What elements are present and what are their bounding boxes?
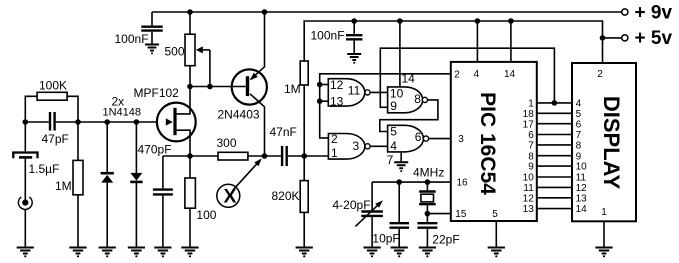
capacitor C6 100nF (right) — [353, 21, 355, 34]
svg-text:11: 11 — [348, 84, 361, 98]
capacitor 10pF — [398, 182, 400, 222]
svg-text:3: 3 — [353, 139, 360, 153]
IC U2 PIC 16C54 — [451, 62, 537, 221]
input connector J1 — [18, 197, 32, 210]
svg-text:2: 2 — [454, 70, 460, 81]
wire U1 pin7 to ground — [400, 152, 402, 162]
svg-text:MPF102: MPF102 — [134, 86, 180, 100]
diode D2 1N4148 — [135, 122, 137, 173]
terminal +9v — [622, 9, 628, 15]
ground (trimmer) — [364, 248, 381, 258]
svg-text:11: 11 — [523, 183, 534, 194]
node 5v/PIC pin14 — [508, 18, 514, 24]
svg-text:8: 8 — [528, 151, 534, 162]
svg-text:8: 8 — [576, 141, 582, 152]
op-amp U1c NAND 2,1->3 — [328, 134, 365, 160]
svg-text:4MHz: 4MHz — [413, 166, 444, 180]
svg-text:8: 8 — [414, 92, 421, 106]
svg-text:11: 11 — [576, 173, 587, 184]
wire bus PIC9-DISP10 — [537, 165, 572, 167]
wire J1 to ground — [24, 210, 26, 248]
node 5v/PIC pin4 — [475, 18, 481, 24]
svg-text:PIC 16C54: PIC 16C54 — [476, 92, 499, 195]
svg-text:1.5µF: 1.5µF — [29, 162, 60, 176]
resistor R5 300 — [218, 152, 248, 160]
wire gate1 out to gate2 pin10 — [370, 91, 388, 93]
wire bus PIC11-DISP12 — [537, 186, 572, 188]
node drain — [187, 84, 193, 90]
svg-text:1: 1 — [528, 99, 534, 110]
wire +5v terminal lead — [603, 37, 622, 39]
wire bus PIC8-DISP9 — [537, 155, 572, 157]
wire bus PIC1-DISP4 — [537, 102, 572, 104]
wire +9v rail — [152, 11, 622, 13]
terminal +5v — [622, 35, 628, 41]
ground (C1) — [145, 45, 159, 55]
node B — [75, 119, 81, 125]
svg-text:12: 12 — [523, 193, 535, 204]
wire source row — [163, 155, 218, 157]
node 10pF tap — [396, 179, 402, 185]
wire U1 pin14 to 5v — [399, 21, 401, 87]
wire C3 to node A — [24, 122, 26, 151]
wire bus PIC17-DISP6 — [537, 123, 572, 125]
svg-text:14: 14 — [402, 72, 416, 86]
wire gate2 pin9 to PIC pin1 net — [380, 48, 554, 107]
svg-text:13: 13 — [523, 204, 535, 215]
ground (10pF) — [391, 248, 408, 258]
capacitor C1 100nF (left) — [151, 12, 153, 25]
node 5v/gate pin14 — [397, 18, 403, 24]
svg-text:47pF: 47pF — [42, 132, 69, 146]
svg-text:3: 3 — [458, 134, 464, 145]
wire bus PIC13-DISP14 — [537, 208, 572, 210]
svg-text:7: 7 — [387, 153, 394, 167]
trimmer capacitor 4-20pF — [371, 182, 373, 210]
capacitor C5 47nF — [265, 155, 282, 157]
ground (R2) — [69, 248, 86, 258]
svg-text:9: 9 — [390, 99, 397, 113]
svg-text:DISPLAY: DISPLAY — [599, 96, 624, 190]
svg-text:5: 5 — [390, 124, 397, 138]
wire +5v rail — [304, 21, 602, 63]
svg-text:15: 15 — [455, 209, 467, 220]
svg-text:4: 4 — [576, 99, 582, 110]
svg-text:1M: 1M — [55, 179, 72, 193]
node 5v/100nF — [351, 18, 357, 24]
svg-text:14: 14 — [504, 69, 516, 80]
ground (J1) — [17, 248, 34, 258]
svg-text:14: 14 — [576, 204, 588, 215]
svg-text:16: 16 — [457, 178, 469, 189]
capacitor C2 47pF — [50, 112, 55, 131]
probe point X — [217, 184, 240, 207]
node PIC pin1 feedback tap — [552, 100, 558, 106]
node A input — [23, 119, 29, 125]
svg-text:6: 6 — [528, 130, 534, 141]
wire gate4 out to PIC pin3 — [429, 138, 451, 140]
wire PIC pin15 row — [427, 213, 450, 215]
svg-text:100nF: 100nF — [311, 29, 345, 43]
svg-text:17: 17 — [523, 119, 535, 130]
svg-text:5: 5 — [492, 209, 498, 220]
ground (22pF) — [419, 248, 436, 258]
svg-text:9: 9 — [528, 162, 534, 173]
transistor Q2 2N4403 — [232, 69, 267, 104]
svg-text:10: 10 — [576, 162, 588, 173]
capacitor 22pF — [426, 214, 428, 222]
node pin12 tap — [317, 82, 323, 88]
capacitor C3 1.5uF — [13, 153, 37, 159]
svg-text:820K: 820K — [272, 189, 300, 203]
node 9v/Q2 emitter — [262, 9, 268, 15]
svg-text:300: 300 — [217, 136, 237, 150]
svg-text:2: 2 — [597, 69, 603, 80]
svg-text:13: 13 — [330, 94, 344, 108]
wire DISP pin1 to ground — [603, 221, 605, 247]
wire gate2 out feedback to gate4 pin5 — [380, 100, 438, 132]
ground (R4) — [181, 248, 198, 258]
capacitor C4 470pF — [162, 156, 164, 188]
node D1 — [104, 119, 110, 125]
svg-text:1M: 1M — [284, 82, 301, 96]
wire bus PIC18-DISP5 — [537, 112, 572, 114]
wire PIC pin4 to 5v — [476, 21, 478, 62]
svg-text:4: 4 — [390, 139, 397, 153]
svg-text:47nF: 47nF — [270, 125, 297, 139]
transistor Q1 MPF102 — [157, 103, 196, 142]
wire main input line — [25, 121, 157, 123]
resistor R6 1M (bias) — [300, 61, 308, 85]
wire PIC pin5 to ground — [495, 221, 497, 248]
svg-text:100: 100 — [196, 208, 216, 222]
svg-text:12: 12 — [576, 183, 588, 194]
ground (D2) — [128, 248, 145, 258]
svg-text:1: 1 — [331, 146, 338, 160]
wire bus PIC10-DISP11 — [537, 176, 572, 178]
resistor R7 820K — [303, 156, 305, 181]
resistor R4 100 — [189, 156, 191, 178]
svg-text:7: 7 — [528, 141, 534, 152]
op-amp U1d NAND 5,4->6 — [388, 125, 424, 152]
wire PIC pin16 row — [372, 181, 451, 183]
svg-text:4: 4 — [474, 69, 480, 80]
node wiper — [207, 84, 213, 90]
potentiometer R3 500 — [189, 12, 191, 34]
wire bus PIC6-DISP7 — [537, 134, 572, 136]
node 5v terminal tap — [600, 35, 606, 41]
ground (D1) — [99, 248, 116, 258]
wire drain node row — [190, 86, 246, 88]
svg-text:10: 10 — [523, 173, 535, 184]
svg-text:470pF: 470pF — [138, 143, 172, 157]
svg-text:2: 2 — [331, 132, 338, 146]
resistor R1 100K — [25, 96, 37, 122]
wire PIC pin14 to 5v — [510, 21, 512, 62]
resistor R2 1M — [77, 122, 79, 160]
wire gate1 pin12 stub — [320, 84, 329, 86]
ground (C6) — [347, 54, 361, 64]
wire PIC pin2 net — [320, 74, 451, 138]
node collector — [262, 153, 268, 159]
diode D1 1N4148 — [106, 122, 108, 172]
ground (R7) — [296, 248, 313, 258]
svg-text:13: 13 — [576, 193, 588, 204]
wire gate3 out to gate4 pin4 — [370, 145, 387, 147]
svg-text:7: 7 — [576, 130, 582, 141]
IC U3 DISPLAY — [572, 63, 636, 221]
wire bus PIC7-DISP8 — [537, 144, 572, 146]
op-amp U1b NAND 10,9->8 — [388, 87, 423, 113]
crystal X1 4MHz — [426, 182, 428, 190]
svg-text:22pF: 22pF — [432, 233, 459, 247]
wire bus PIC12-DISP13 — [537, 197, 572, 199]
node crystal bottom — [425, 211, 431, 217]
svg-text:1: 1 — [601, 207, 607, 218]
svg-text:18: 18 — [523, 109, 535, 120]
wire J1 to C3 — [24, 158, 26, 202]
svg-text:1N4148: 1N4148 — [103, 107, 142, 119]
svg-text:+ 5v: + 5v — [635, 28, 673, 49]
svg-text:100nF: 100nF — [115, 32, 149, 46]
svg-text:+ 9v: + 9v — [635, 2, 673, 23]
ground (PIC pin5) — [488, 248, 505, 258]
op-amp U1a NAND 12,13->11 — [328, 79, 365, 106]
svg-text:X: X — [224, 186, 237, 207]
svg-text:5: 5 — [576, 109, 582, 120]
node D2 — [134, 119, 140, 125]
node crystal top tap — [425, 179, 431, 185]
svg-text:100K: 100K — [39, 79, 67, 93]
wire gate1 pin13 stub — [320, 100, 329, 102]
svg-text:12: 12 — [330, 78, 344, 92]
node pin13 tap — [317, 98, 323, 104]
svg-text:2N4403: 2N4403 — [218, 108, 260, 122]
svg-text:500: 500 — [165, 45, 185, 59]
svg-text:6: 6 — [576, 119, 582, 130]
ground (U1 pin7) — [394, 162, 408, 172]
svg-text:10pF: 10pF — [372, 231, 399, 245]
ground (DISP pin1) — [595, 248, 612, 258]
ground (C4) — [154, 248, 171, 258]
svg-text:6: 6 — [415, 130, 422, 144]
node bias — [301, 153, 307, 159]
svg-text:9: 9 — [576, 151, 582, 162]
node 9v/pot — [187, 9, 193, 15]
node source — [187, 153, 193, 159]
svg-text:4-20pF: 4-20pF — [333, 198, 371, 212]
